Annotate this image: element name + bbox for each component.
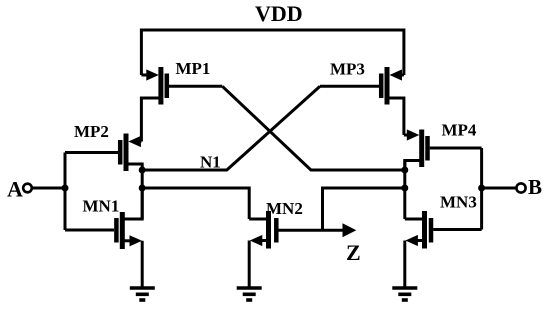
wire right node vertical MP4 drain to MN3 drain: [403, 161, 406, 220]
svg-text:VDD: VDD: [255, 1, 303, 26]
transistor MN2: [249, 211, 342, 288]
svg-text:A: A: [7, 177, 23, 202]
svg-text:B: B: [528, 175, 542, 199]
junction dot B: [478, 185, 485, 192]
wire A gate vertical: [64, 153, 67, 231]
svg-text:MP4: MP4: [442, 121, 477, 140]
svg-text:MN1: MN1: [83, 197, 120, 216]
wire VDD right drop: [402, 29, 405, 76]
junction dot right node rail1: [401, 167, 408, 174]
svg-text:MN2: MN2: [266, 199, 303, 218]
ground MN2: [237, 288, 262, 300]
junction dot right node rail2: [401, 185, 408, 192]
wire VDD rail: [141, 29, 404, 32]
svg-text:MN3: MN3: [440, 193, 477, 212]
terminal B circle: [516, 183, 525, 192]
wire output B: [482, 187, 517, 190]
wire B gate vertical: [480, 148, 483, 230]
svg-text:Z: Z: [346, 240, 361, 265]
junction dot N1 rail1: [139, 167, 146, 174]
wire input A: [32, 187, 65, 190]
output Z arrow: [343, 223, 357, 237]
transistor MP3: [320, 67, 404, 135]
transistor MN1: [65, 190, 142, 288]
transistor MP4: [404, 129, 482, 171]
svg-text:MP1: MP1: [176, 59, 211, 78]
wire VDD left drop: [140, 29, 143, 76]
wire MP1 gate cross-couple diagonal to right node: [222, 86, 404, 170]
junction dot N1 rail2: [139, 185, 146, 192]
wire left rail node N1 to MN2 drain: [142, 188, 249, 219]
junction dot A: [62, 185, 69, 192]
svg-text:MP3: MP3: [330, 60, 365, 79]
wire left node vertical MP2 drain to MN1 drain: [141, 168, 144, 219]
ground MN3: [392, 288, 417, 300]
terminal A circle: [23, 184, 32, 193]
wire MP3 gate cross-couple diagonal to node N1: [142, 86, 320, 170]
wire right rail to Z vertical: [323, 188, 405, 230]
svg-text:N1: N1: [200, 153, 221, 172]
transistor MN3: [405, 211, 482, 288]
transistor MP1: [141, 67, 222, 142]
svg-text:MP2: MP2: [74, 122, 109, 141]
transistor MP2: [65, 134, 142, 173]
ground MN1: [130, 288, 155, 300]
